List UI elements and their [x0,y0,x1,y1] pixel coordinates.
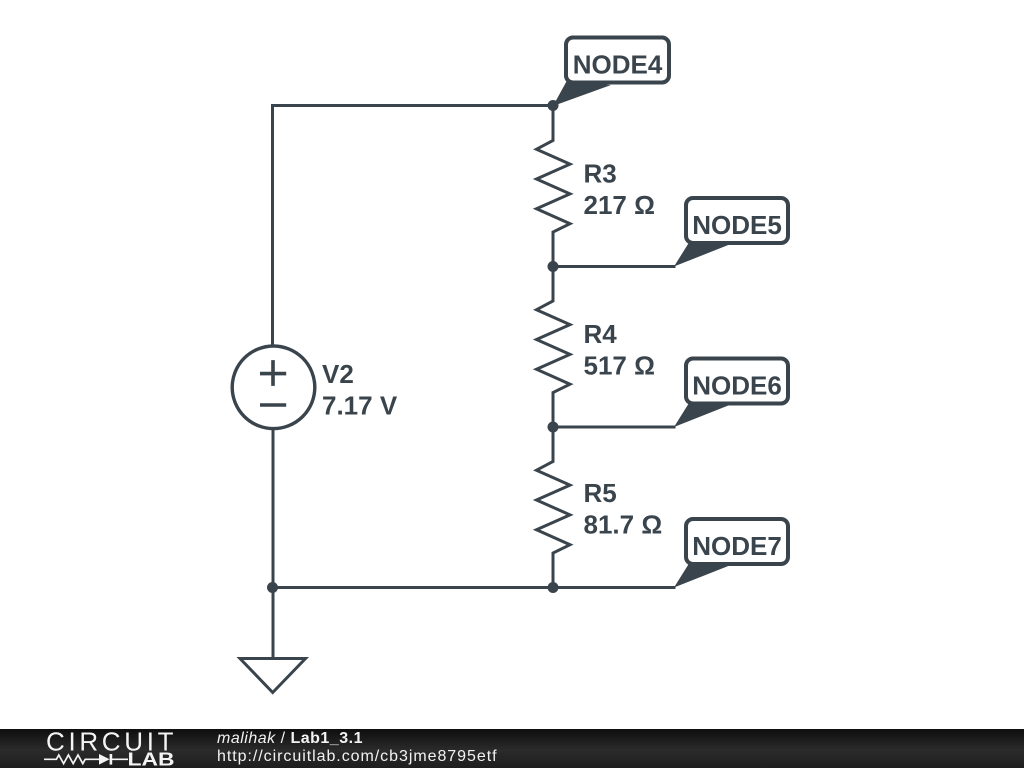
svg-text:LAB: LAB [128,750,175,768]
svg-text:81.7 Ω: 81.7 Ω [584,510,663,540]
svg-text:R3: R3 [584,159,617,189]
svg-text:NODE5: NODE5 [692,210,782,240]
svg-text:R4: R4 [584,319,618,349]
svg-text:517 Ω: 517 Ω [584,351,655,381]
svg-text:217 Ω: 217 Ω [584,190,655,220]
svg-text:7.17 V: 7.17 V [322,391,398,421]
svg-text:NODE7: NODE7 [692,531,782,561]
svg-text:R5: R5 [584,478,617,508]
svg-text:NODE6: NODE6 [692,370,782,400]
svg-text:V2: V2 [322,359,354,389]
svg-text:NODE4: NODE4 [573,49,663,79]
